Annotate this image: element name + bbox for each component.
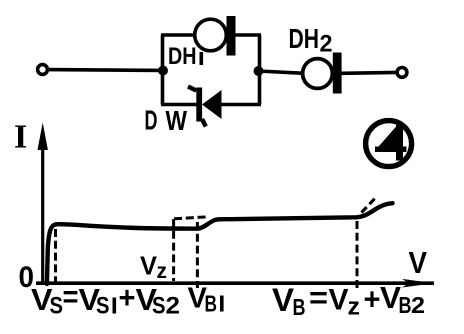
- svg-text:V: V: [409, 245, 428, 280]
- figure number 4 (circled): [366, 121, 412, 167]
- svg-text:2: 2: [166, 293, 181, 320]
- wire right vertical: [258, 35, 262, 105]
- diode DH2: [303, 53, 342, 94]
- svg-text:B: B: [293, 294, 306, 320]
- dashed breakdown slope right: [362, 198, 376, 213]
- wire bottom rail right: [221, 103, 261, 107]
- svg-text:DH: DH: [289, 23, 320, 54]
- label Vz (graph): [140, 251, 167, 284]
- terminal left: [38, 65, 48, 75]
- svg-text:I: I: [14, 119, 27, 156]
- svg-text:+: +: [364, 282, 381, 317]
- svg-text:B: B: [205, 291, 218, 317]
- svg-text:z: z: [348, 294, 361, 321]
- label DH1: [168, 43, 203, 70]
- zener diode DW: [188, 87, 222, 127]
- axis I (vertical): [38, 123, 48, 285]
- terminal right: [397, 68, 407, 78]
- wire right: [341, 71, 397, 76]
- dashed connector Vz to curve: [174, 217, 208, 219]
- dashed line VB: [356, 221, 359, 288]
- dashed line Vs: [54, 229, 57, 288]
- wire bottom rail left: [161, 103, 197, 107]
- svg-text:=: =: [309, 280, 328, 315]
- wire top rail right: [235, 33, 261, 37]
- svg-text:z: z: [157, 260, 168, 283]
- svg-text:V: V: [140, 251, 158, 281]
- svg-text:V: V: [272, 282, 295, 318]
- svg-text:2: 2: [320, 31, 333, 58]
- svg-text:S: S: [96, 293, 110, 320]
- label DH2: [289, 23, 333, 58]
- I-V curve: [47, 203, 393, 284]
- wire top rail left: [161, 33, 196, 37]
- label VB=Vz+VB2: [272, 280, 425, 321]
- node A (left junction): [158, 66, 168, 76]
- svg-text:2: 2: [411, 292, 425, 318]
- svg-text:V: V: [329, 284, 349, 317]
- svg-text:+: +: [119, 280, 136, 315]
- label DW: [145, 105, 188, 137]
- wire middle: [259, 71, 305, 73]
- axis V (horizontal): [36, 279, 434, 288]
- svg-text:S: S: [152, 293, 166, 320]
- svg-text:S: S: [50, 293, 64, 320]
- diode DH1: [195, 16, 236, 56]
- svg-text:D: D: [145, 105, 158, 136]
- svg-text:W: W: [166, 105, 188, 136]
- dashed line VB1: [196, 222, 199, 288]
- wire left: [48, 68, 164, 72]
- label VS=VS1+VS2: [31, 279, 180, 320]
- svg-text:B: B: [399, 292, 412, 318]
- dashed line Vz: [172, 219, 175, 281]
- node B (right junction): [254, 66, 264, 76]
- svg-text:DH: DH: [168, 43, 197, 70]
- label VB1: [188, 283, 224, 317]
- svg-text:=: =: [63, 279, 79, 314]
- wire left vertical: [161, 35, 165, 105]
